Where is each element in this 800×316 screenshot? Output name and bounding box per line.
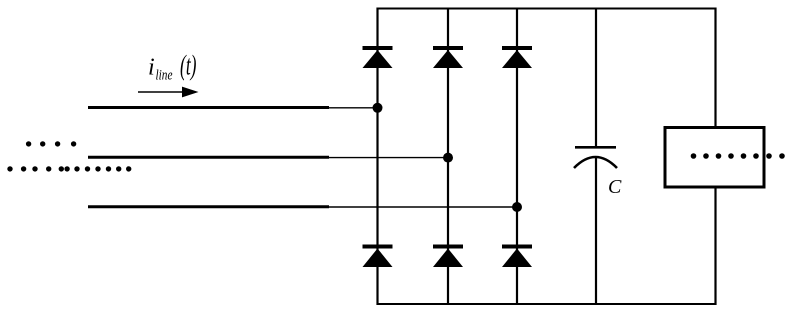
diode D1 top leg1: [363, 46, 393, 68]
wire phase c thick: [88, 205, 329, 208]
top rail (positive DC bus): [377, 8, 717, 10]
node junction phase b / leg 2: [443, 153, 453, 163]
svg-text:i: i: [148, 55, 155, 81]
wire phase c thin: [329, 206, 517, 208]
load dots: [691, 153, 785, 159]
svg-text:C: C: [608, 176, 622, 198]
diode D5 top leg3: [502, 46, 532, 68]
diode D2 bottom leg3: [502, 245, 532, 268]
phase continuation dots row upper: [26, 141, 76, 146]
svg-text:(t): (t): [180, 51, 197, 82]
svg-text:line: line: [156, 68, 173, 84]
diode D3 top leg2: [433, 46, 463, 68]
wire phase a thick: [88, 106, 329, 109]
diode D6 bottom leg2: [433, 245, 463, 268]
wire bridge leg 3: [516, 8, 518, 306]
wire bridge leg 1: [376, 8, 378, 306]
wire phase a thin: [329, 107, 378, 109]
wire phase b thin: [329, 157, 448, 159]
capacitor C top plate: [575, 146, 616, 149]
wire capacitor branch upper: [595, 8, 597, 148]
wire load branch upper: [714, 8, 716, 128]
phase continuation dots row lower: [7, 166, 131, 171]
current direction arrow shaft: [138, 91, 184, 93]
wire load branch lower: [714, 187, 716, 305]
diode D4 bottom leg1: [363, 245, 393, 268]
wire capacitor branch lower: [595, 157, 597, 306]
load box: [665, 128, 764, 188]
capacitor C bottom curved plate: [574, 157, 617, 168]
wire bridge leg 2: [447, 8, 449, 306]
wire phase b thick: [88, 156, 329, 159]
bottom rail (negative DC bus): [377, 303, 717, 305]
current direction arrow head: [182, 87, 199, 98]
label i_line(t): [148, 51, 197, 84]
node junction phase a / leg 1: [373, 103, 383, 113]
node junction phase c / leg 3: [512, 202, 522, 212]
